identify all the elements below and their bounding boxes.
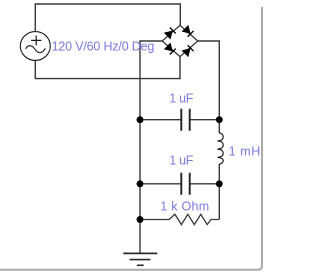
svg-text:1 uF: 1 uF <box>169 92 193 106</box>
svg-text:1 uF: 1 uF <box>169 154 193 168</box>
svg-text:1 k Ohm: 1 k Ohm <box>160 200 209 214</box>
svg-text:1 mH: 1 mH <box>229 145 261 159</box>
svg-text:120 V/60 Hz/0 Deg: 120 V/60 Hz/0 Deg <box>52 40 155 54</box>
